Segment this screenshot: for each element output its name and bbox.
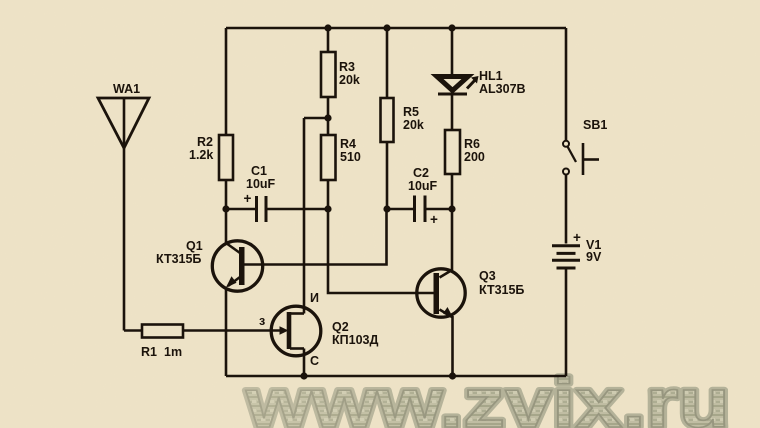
svg-text:C2: C2: [413, 166, 429, 180]
svg-text:10uF: 10uF: [246, 177, 276, 191]
svg-text:+: +: [573, 230, 581, 245]
svg-text:HL1: HL1: [479, 69, 503, 83]
svg-text:з: з: [259, 314, 265, 328]
svg-text:200: 200: [464, 150, 485, 164]
svg-text:R3: R3: [339, 60, 355, 74]
svg-text:И: И: [310, 291, 319, 305]
svg-text:510: 510: [340, 150, 361, 164]
svg-text:КП103Д: КП103Д: [332, 333, 378, 347]
svg-text:+: +: [244, 191, 252, 206]
svg-text:www.zvix.ru: www.zvix.ru: [245, 364, 730, 428]
svg-text:WA1: WA1: [113, 82, 140, 96]
svg-text:С: С: [310, 354, 319, 368]
svg-text:КТ315Б: КТ315Б: [156, 252, 201, 266]
svg-text:1.2k: 1.2k: [189, 148, 213, 162]
svg-text:1m: 1m: [164, 345, 182, 359]
svg-text:20k: 20k: [339, 73, 360, 87]
svg-text:AL307B: AL307B: [479, 82, 526, 96]
svg-text:R1: R1: [141, 345, 157, 359]
svg-text:+: +: [430, 212, 438, 227]
svg-text:Q2: Q2: [332, 320, 349, 334]
svg-text:R4: R4: [340, 137, 356, 151]
svg-text:КТ315Б: КТ315Б: [479, 283, 524, 297]
svg-text:C1: C1: [251, 164, 267, 178]
svg-text:Q1: Q1: [186, 239, 203, 253]
svg-text:10uF: 10uF: [408, 179, 438, 193]
svg-text:9V: 9V: [586, 250, 602, 264]
svg-text:Q3: Q3: [479, 269, 496, 283]
svg-text:20k: 20k: [403, 118, 424, 132]
svg-text:R5: R5: [403, 105, 419, 119]
svg-text:SB1: SB1: [583, 118, 607, 132]
svg-text:R2: R2: [197, 135, 213, 149]
svg-text:R6: R6: [464, 137, 480, 151]
